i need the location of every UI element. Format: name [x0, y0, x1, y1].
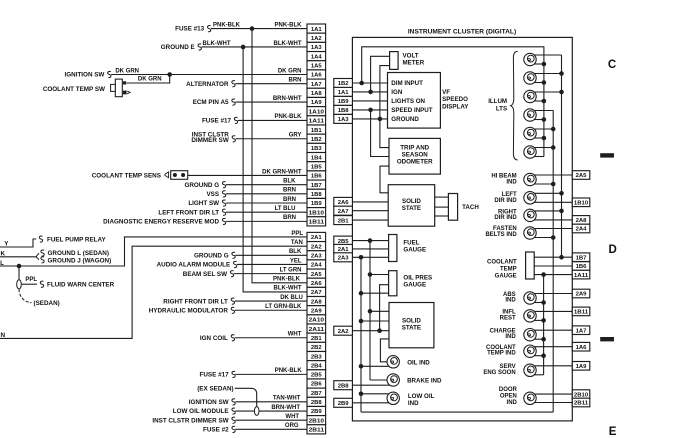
- wire 1B2 to DIM INPUT: [352, 82, 387, 84]
- wire fasten belts ground: [534, 237, 553, 239]
- svg-text:OIL PRES: OIL PRES: [403, 274, 432, 281]
- svg-text:1A3: 1A3: [311, 45, 323, 51]
- connector half INST CLSTR DIMMER SW: [232, 417, 235, 423]
- connector pin 1A3: [307, 42, 326, 51]
- svg-text:FUSE #17: FUSE #17: [202, 118, 232, 125]
- svg-text:DK GRN: DK GRN: [115, 68, 139, 74]
- meter TACH: [448, 194, 457, 221]
- svg-text:ORG: ORG: [285, 423, 299, 429]
- wire BEAM SEL SW to pin 2A5: [234, 273, 307, 275]
- wire FUEL PUMP RELAY GRY: [0, 239, 36, 247]
- junction bus A: [542, 62, 547, 67]
- junction ground: [378, 117, 383, 122]
- svg-text:LEFT FRONT DIR LT: LEFT FRONT DIR LT: [158, 209, 219, 216]
- wire fuse 17 bus: [369, 241, 371, 380]
- junction fuse 17 bus: [368, 238, 373, 243]
- svg-text:BRN-WHT: BRN-WHT: [273, 96, 302, 102]
- svg-text:1B6: 1B6: [311, 174, 323, 180]
- svg-text:1B2: 1B2: [338, 81, 350, 87]
- svg-text:1B11: 1B11: [574, 310, 589, 316]
- svg-text:FUEL: FUEL: [403, 239, 419, 246]
- connector pin 2B10: [307, 416, 326, 425]
- lamp FASTEN BELTS IND: [524, 227, 536, 239]
- cluster pin 2B10: [572, 390, 590, 399]
- svg-text:1A1: 1A1: [338, 90, 350, 96]
- svg-text:2B7: 2B7: [311, 391, 323, 397]
- svg-text:1A5: 1A5: [311, 64, 323, 70]
- svg-text:BELTS IND: BELTS IND: [485, 232, 517, 238]
- lamp ILLUM LTS 3: [524, 90, 536, 102]
- connector half VSS: [222, 191, 225, 197]
- connector pin 1B7: [307, 180, 326, 189]
- svg-text:2A7: 2A7: [311, 290, 323, 296]
- svg-text:GROUND J (WAGON): GROUND J (WAGON): [48, 257, 112, 264]
- wire ECM PIN A5 to pin 1A9: [235, 101, 307, 103]
- svg-text:RIGHT FRONT DIR LT: RIGHT FRONT DIR LT: [163, 298, 228, 305]
- wire ground bus C: [552, 111, 554, 413]
- svg-text:2B10: 2B10: [309, 418, 325, 424]
- svg-text:2A1: 2A1: [311, 235, 323, 241]
- wire illum 2 top to ground bus B: [534, 73, 561, 75]
- meter VOLT METER: [390, 52, 399, 70]
- module TRIP AND SEASON ODOMETER: [389, 138, 440, 174]
- connector pin 2B9: [307, 406, 326, 415]
- connector pin 1A2: [307, 33, 326, 42]
- module VF SPEEDO DISPLAY: [388, 73, 441, 129]
- connector half GROUND G: [222, 182, 225, 188]
- margin bar 1: [600, 153, 614, 157]
- junction fuse bus oil gauge: [368, 272, 373, 277]
- wire TAN to 2A2: [0, 246, 307, 338]
- connector pin 2A3: [307, 251, 326, 260]
- wire ground bus B: [561, 55, 563, 257]
- svg-text:1B7: 1B7: [311, 183, 323, 189]
- svg-text:2A11: 2A11: [309, 327, 325, 333]
- svg-text:DIM INPUT: DIM INPUT: [391, 80, 423, 87]
- wire ground bus: [360, 257, 362, 412]
- svg-text:INSTRUMENT CLUSTER (DIGITAL): INSTRUMENT CLUSTER (DIGITAL): [408, 29, 516, 36]
- wire right dir to 2A8: [534, 219, 572, 221]
- connector pin 1A5: [307, 61, 326, 70]
- svg-text:PNK-BLK: PNK-BLK: [213, 22, 241, 28]
- gauge OIL PRES GAUGE: [389, 271, 397, 296]
- svg-text:2A5: 2A5: [311, 272, 323, 278]
- connector half LEFT FRONT DIR LT: [222, 209, 225, 215]
- lamp ABS IND: [524, 292, 536, 304]
- wire door open to 2B10: [534, 393, 572, 395]
- connector half FUEL PUMP RELAY: [39, 236, 42, 242]
- svg-text:ILLUM: ILLUM: [488, 98, 507, 105]
- junction bus A: [542, 136, 547, 141]
- cluster pin 1B11: [572, 307, 590, 316]
- svg-text:1B8: 1B8: [311, 192, 323, 198]
- connector pin 2B7: [307, 388, 326, 397]
- wire left dir to 1B10: [534, 201, 572, 203]
- connector pin 2B5: [307, 370, 326, 379]
- svg-text:(SEDAN): (SEDAN): [34, 300, 60, 307]
- inline connector fluid warn: [17, 280, 22, 289]
- junction fluid warn tap: [17, 264, 22, 269]
- connector pin 1A6: [307, 70, 326, 79]
- module SOLID STATE tach: [388, 185, 435, 227]
- wire ground bus to low oil ind: [361, 393, 389, 395]
- sensor COOLANT TEMP SENS: [165, 171, 188, 180]
- connector half GROUND J (WAGON): [36, 257, 39, 260]
- lamp DOOR OPEN IND: [524, 392, 536, 404]
- svg-text:WHT: WHT: [288, 332, 302, 338]
- svg-text:2B8: 2B8: [311, 400, 323, 406]
- junction bus C: [551, 127, 556, 132]
- svg-text:FLUID WARN CENTER: FLUID WARN CENTER: [47, 282, 115, 289]
- svg-text:1A9: 1A9: [576, 364, 588, 370]
- cluster pin 2B11: [572, 398, 590, 407]
- wire GROUND E to pin 1A3: [202, 46, 308, 48]
- lamp ILLUM LTS 4: [524, 109, 536, 121]
- lamp CHARGE IND: [524, 329, 536, 341]
- svg-text:COOLANT TEMP SW: COOLANT TEMP SW: [43, 86, 105, 93]
- svg-text:LT GRN-BLK: LT GRN-BLK: [265, 304, 302, 310]
- wire (EX SEDAN): [235, 388, 257, 406]
- svg-text:WHT: WHT: [285, 414, 299, 420]
- svg-text:SOLID: SOLID: [402, 317, 421, 324]
- wire ground bus to right ground bus: [361, 411, 553, 413]
- junction ground bus oil ind: [359, 364, 364, 369]
- wire FLUID WARN CENTER PPL: [21, 283, 37, 285]
- wire ign to volt meter: [371, 56, 390, 92]
- svg-text:2A8: 2A8: [311, 299, 323, 305]
- svg-text:BRN: BRN: [283, 188, 296, 194]
- svg-text:GAUGE: GAUGE: [403, 247, 426, 254]
- svg-text:1A1: 1A1: [311, 27, 323, 33]
- junction bus D infl rest: [541, 318, 546, 323]
- wire speed input to odometer: [371, 110, 389, 157]
- svg-text:COOLANT: COOLANT: [487, 260, 517, 266]
- svg-text:1B8: 1B8: [338, 108, 350, 114]
- junction bus B to ground 1B7: [559, 255, 564, 260]
- svg-text:INST CLSTR DIMMER SW: INST CLSTR DIMMER SW: [152, 417, 228, 424]
- cluster pin 1B8: [334, 105, 353, 114]
- cluster pin 2B5: [334, 236, 353, 245]
- svg-text:1B2: 1B2: [311, 137, 323, 143]
- svg-text:2A2: 2A2: [311, 244, 323, 250]
- junction bus A: [542, 80, 547, 85]
- svg-text:IGN: IGN: [391, 89, 403, 96]
- svg-text:2A5: 2A5: [576, 173, 588, 179]
- connector pin 2A1: [307, 232, 326, 241]
- junction ign: [368, 90, 373, 95]
- svg-text:DIMMER SW: DIMMER SW: [191, 137, 228, 144]
- wire illum 1 top to ground bus B: [534, 54, 561, 56]
- junction dim input: [359, 81, 364, 86]
- wire illum 5 bottom to feed bus A: [534, 137, 544, 139]
- junction ground bus: [359, 255, 364, 260]
- margin bar 2: [600, 337, 614, 341]
- wire infl rest to 1B11: [534, 310, 572, 312]
- wire FUSE #13 to pin 1A1: [211, 28, 307, 30]
- wire serv eng soon to fuse bus D: [534, 374, 543, 376]
- brace illum lts: [511, 51, 518, 160]
- cluster pin 2A5: [572, 171, 590, 180]
- junction bus A: [542, 99, 547, 104]
- wire illum 6 top to ground bus C: [534, 147, 553, 149]
- wire right dir ground: [534, 210, 561, 212]
- wire INST CLSTR DIMMER SW to pin 2B10: [235, 419, 307, 421]
- wire illum 3 bottom to feed bus A: [534, 100, 544, 102]
- junction bus D coolant temp: [541, 353, 546, 358]
- connector pin 2A11: [307, 324, 326, 333]
- lamp LOW OIL IND: [387, 392, 399, 404]
- svg-text:VF: VF: [442, 89, 450, 96]
- cluster pin 2A2: [334, 326, 353, 335]
- svg-text:1B9: 1B9: [338, 99, 350, 105]
- svg-text:2B2: 2B2: [311, 345, 323, 351]
- svg-text:DK GRN: DK GRN: [138, 77, 162, 83]
- svg-text:2B1: 2B1: [311, 336, 323, 342]
- connector pin 1A11: [307, 116, 326, 125]
- svg-text:2A9: 2A9: [311, 308, 323, 314]
- connector half RIGHT FRONT DIR LT: [231, 298, 234, 304]
- svg-text:DIR IND: DIR IND: [494, 215, 517, 221]
- cluster pin 2A1: [334, 244, 353, 253]
- junction bus C fasten belts: [551, 235, 556, 240]
- svg-text:1B11: 1B11: [309, 220, 325, 226]
- cluster pin 2A4: [572, 224, 590, 233]
- wire HYDRAULIC MODULATOR to pin 2A9: [235, 309, 307, 311]
- svg-text:2A4: 2A4: [311, 263, 323, 269]
- connector pin 2A6: [307, 278, 326, 287]
- junction bus B right dir: [559, 209, 564, 214]
- junction bus A: [542, 117, 547, 122]
- cluster pin 1B2: [334, 79, 353, 88]
- wire 2A6 to solid state: [352, 201, 388, 203]
- svg-text:2A3: 2A3: [311, 254, 323, 260]
- svg-text:IND: IND: [505, 298, 516, 304]
- cluster pin 2B9: [334, 398, 353, 407]
- lamp COOLANT TEMP IND: [524, 345, 536, 357]
- connector half FUSE #17: [232, 371, 235, 377]
- connector pin 2A10: [307, 315, 326, 324]
- junction bus C hi beam: [551, 182, 556, 187]
- svg-text:BLK: BLK: [283, 178, 296, 184]
- svg-text:BRN: BRN: [283, 197, 296, 203]
- wire hi beam ground: [534, 183, 553, 185]
- connector half ECM PIN A5: [232, 99, 235, 105]
- connector pin 2A7: [307, 287, 326, 296]
- svg-text:OPEN: OPEN: [500, 394, 517, 400]
- connector half GROUND G: [232, 252, 235, 258]
- svg-text:COOLANT TEMP SENS: COOLANT TEMP SENS: [92, 173, 161, 180]
- svg-text:BLK: BLK: [289, 249, 302, 255]
- connector half ALTERNATOR: [232, 81, 235, 87]
- wire abs to fuse bus D: [534, 302, 543, 304]
- svg-text:TAN: TAN: [291, 240, 303, 246]
- wire solid state to tach 1: [435, 196, 449, 198]
- svg-text:IND: IND: [506, 179, 517, 185]
- connector pin 1B2: [307, 134, 326, 143]
- wire GROUND L/J BLK: [0, 256, 36, 258]
- svg-text:GROUND: GROUND: [391, 116, 419, 123]
- switch COOLANT TEMP SW: [111, 79, 131, 97]
- svg-text:FUSE #2: FUSE #2: [203, 426, 229, 433]
- junction ground bus oil gauge: [359, 291, 364, 296]
- svg-text:PPL: PPL: [25, 277, 37, 283]
- svg-text:2B6: 2B6: [311, 382, 323, 388]
- wire illum 1 bottom to feed bus A: [534, 63, 544, 65]
- svg-text:DISPLAY: DISPLAY: [442, 103, 469, 110]
- connector pin 1B1: [307, 125, 326, 134]
- svg-text:PNK-BLK: PNK-BLK: [275, 114, 303, 120]
- lamp ILLUM LTS 2: [524, 72, 536, 84]
- svg-text:BRN: BRN: [289, 77, 302, 83]
- svg-text:IGNITION SW: IGNITION SW: [189, 399, 229, 406]
- svg-text:2B11: 2B11: [574, 401, 589, 407]
- lamp ILLUM LTS 1: [524, 53, 536, 65]
- svg-text:TAN-WHT: TAN-WHT: [273, 396, 301, 402]
- wire FUSE #17 to pin 2B5: [235, 373, 307, 375]
- wire oil sender to oil gauge: [380, 285, 389, 331]
- wire RIGHT FRONT DIR LT to pin 2A8: [235, 300, 307, 302]
- connector half BEAM SEL SW: [230, 271, 233, 277]
- svg-text:1A11: 1A11: [309, 119, 325, 125]
- svg-text:DIAGNOSTIC ENERGY RESERVE MOD: DIAGNOSTIC ENERGY RESERVE MOD: [103, 219, 219, 226]
- wire fuse bus D: [543, 275, 545, 375]
- svg-text:IGN COIL: IGN COIL: [200, 335, 228, 342]
- wire COOLANT TEMP SW DK GRN: [127, 74, 170, 83]
- lamp LEFT DIR IND: [524, 192, 536, 204]
- svg-text:BRN: BRN: [283, 215, 296, 221]
- svg-text:DIR IND: DIR IND: [494, 198, 517, 204]
- connector pin 2B8: [307, 397, 326, 406]
- svg-text:DOOR: DOOR: [499, 387, 518, 393]
- svg-text:LOW OIL: LOW OIL: [408, 393, 435, 400]
- wire ALTERNATOR to pin 1A7: [235, 83, 307, 85]
- wire illum 4 bottom to feed bus A: [534, 119, 544, 121]
- svg-text:2A10: 2A10: [309, 318, 325, 324]
- module SOLID STATE 2: [389, 303, 434, 348]
- junction oil sender: [377, 328, 382, 333]
- wire illum 3 top to ground bus B: [534, 91, 561, 93]
- junction ground bus low oil: [359, 392, 364, 397]
- connector pin 1A8: [307, 88, 326, 97]
- wire coolant gauge to 1B7: [534, 256, 572, 258]
- svg-text:1A10: 1A10: [309, 109, 325, 115]
- svg-text:2A1: 2A1: [338, 247, 350, 253]
- svg-text:REST: REST: [500, 316, 516, 322]
- svg-text:TEMP: TEMP: [500, 267, 517, 273]
- svg-text:BRAKE IND: BRAKE IND: [407, 378, 442, 385]
- svg-text:1B7: 1B7: [576, 255, 588, 261]
- gauge FUEL GAUGE: [389, 235, 397, 262]
- wire solid state 2 to oil ind: [380, 339, 389, 362]
- svg-text:2A8: 2A8: [576, 218, 588, 224]
- wire 2A7 to solid state: [352, 210, 388, 212]
- svg-text:2A3: 2A3: [338, 256, 350, 262]
- svg-text:1A6: 1A6: [311, 73, 323, 79]
- svg-text:OIL IND: OIL IND: [407, 359, 430, 366]
- wire PNK-BLK bus to 2A6: [252, 29, 307, 283]
- svg-text:GAUGE: GAUGE: [495, 274, 517, 280]
- wire illum 5 top to ground bus C: [534, 128, 553, 130]
- svg-text:2B1: 2B1: [338, 218, 350, 224]
- wire coolant temp ind to 1A6: [534, 346, 572, 348]
- connector pin 2A2: [307, 242, 326, 251]
- connector half IGN COIL: [231, 335, 234, 341]
- junction fuse bus D: [541, 272, 546, 277]
- cluster pin 1A9: [572, 362, 590, 371]
- svg-text:DK BLU: DK BLU: [280, 295, 303, 301]
- svg-text:TEMP IND: TEMP IND: [487, 351, 516, 357]
- wire DIAGNOSTIC ENERGY RESERVE MOD to pin 1B11: [226, 220, 307, 222]
- svg-text:2B3: 2B3: [311, 354, 323, 360]
- connector half GROUND L (SEDAN): [36, 253, 39, 257]
- svg-text:DK GRN: DK GRN: [278, 68, 302, 74]
- wire to FLUID WARN CENTER: [18, 266, 20, 280]
- junction BLK-WHT bus: [241, 45, 246, 50]
- svg-text:1A8: 1A8: [311, 91, 323, 97]
- svg-text:1B9: 1B9: [311, 201, 323, 207]
- wire fuse bus to solid state 2: [370, 310, 389, 312]
- junction bus D charge: [541, 337, 546, 342]
- wire 2A2 to solid state 2: [352, 330, 389, 332]
- connector half GROUND E: [198, 44, 201, 50]
- svg-text:IND: IND: [408, 400, 419, 407]
- wire infl rest to fuse bus D: [534, 319, 543, 321]
- svg-text:1A7: 1A7: [311, 82, 323, 88]
- cluster pin 2A9: [572, 289, 590, 298]
- wire COOLANT TEMP SENS DK GRN-WHT to 1B6: [188, 174, 307, 176]
- svg-text:1B1: 1B1: [311, 128, 323, 134]
- cluster pin 1B6: [572, 262, 590, 271]
- wire fasten belts to 2A4: [534, 228, 572, 230]
- svg-text:LIGHTS ON: LIGHTS ON: [391, 98, 425, 105]
- wire ground bus to solid state 2: [361, 320, 389, 322]
- svg-text:ALTERNATOR: ALTERNATOR: [186, 81, 229, 88]
- cluster pin 1B9: [334, 96, 353, 105]
- connector pin 1B5: [307, 162, 326, 171]
- wire fuse bus to oil gauge: [370, 274, 389, 276]
- wire GROUND G to pin 2A3: [235, 254, 307, 256]
- wire FUSE #17 to pin 1A11: [238, 119, 307, 121]
- lamp RIGHT DIR IND: [524, 209, 536, 221]
- svg-text:2B9: 2B9: [338, 401, 350, 407]
- svg-text:2B10: 2B10: [574, 392, 589, 398]
- connector pin 2A4: [307, 260, 326, 269]
- svg-text:1A7: 1A7: [576, 328, 588, 334]
- svg-text:1B5: 1B5: [311, 164, 323, 170]
- inline connector ex-sedan: [254, 407, 259, 416]
- svg-text:GROUND E: GROUND E: [161, 44, 195, 51]
- wire INST CLSTR DIMMER SW to pin 1B2: [236, 138, 307, 140]
- svg-text:LOW OIL MODULE: LOW OIL MODULE: [173, 408, 229, 415]
- cluster pin 2A7: [334, 206, 353, 215]
- lamp ILLUM LTS 6: [524, 146, 536, 158]
- connector pin 2B3: [307, 351, 326, 360]
- svg-text:2A4: 2A4: [576, 227, 588, 233]
- junction bus C: [551, 145, 556, 150]
- connector pin 2B11: [307, 425, 326, 434]
- svg-text:2A6: 2A6: [338, 200, 350, 206]
- connector half LIGHT SW: [222, 200, 225, 206]
- connector pin 1B4: [307, 153, 326, 162]
- connector pin 1B11: [307, 217, 326, 226]
- svg-text:FUEL PUMP RELAY: FUEL PUMP RELAY: [47, 236, 106, 243]
- svg-text:1A4: 1A4: [311, 54, 323, 60]
- cluster pin 1A7: [572, 326, 590, 335]
- connector pin 2B6: [307, 379, 326, 388]
- svg-text:PNK-BLK: PNK-BLK: [275, 368, 303, 374]
- cluster pin 1B10: [572, 198, 590, 207]
- wire solid state to tach 3: [435, 215, 449, 217]
